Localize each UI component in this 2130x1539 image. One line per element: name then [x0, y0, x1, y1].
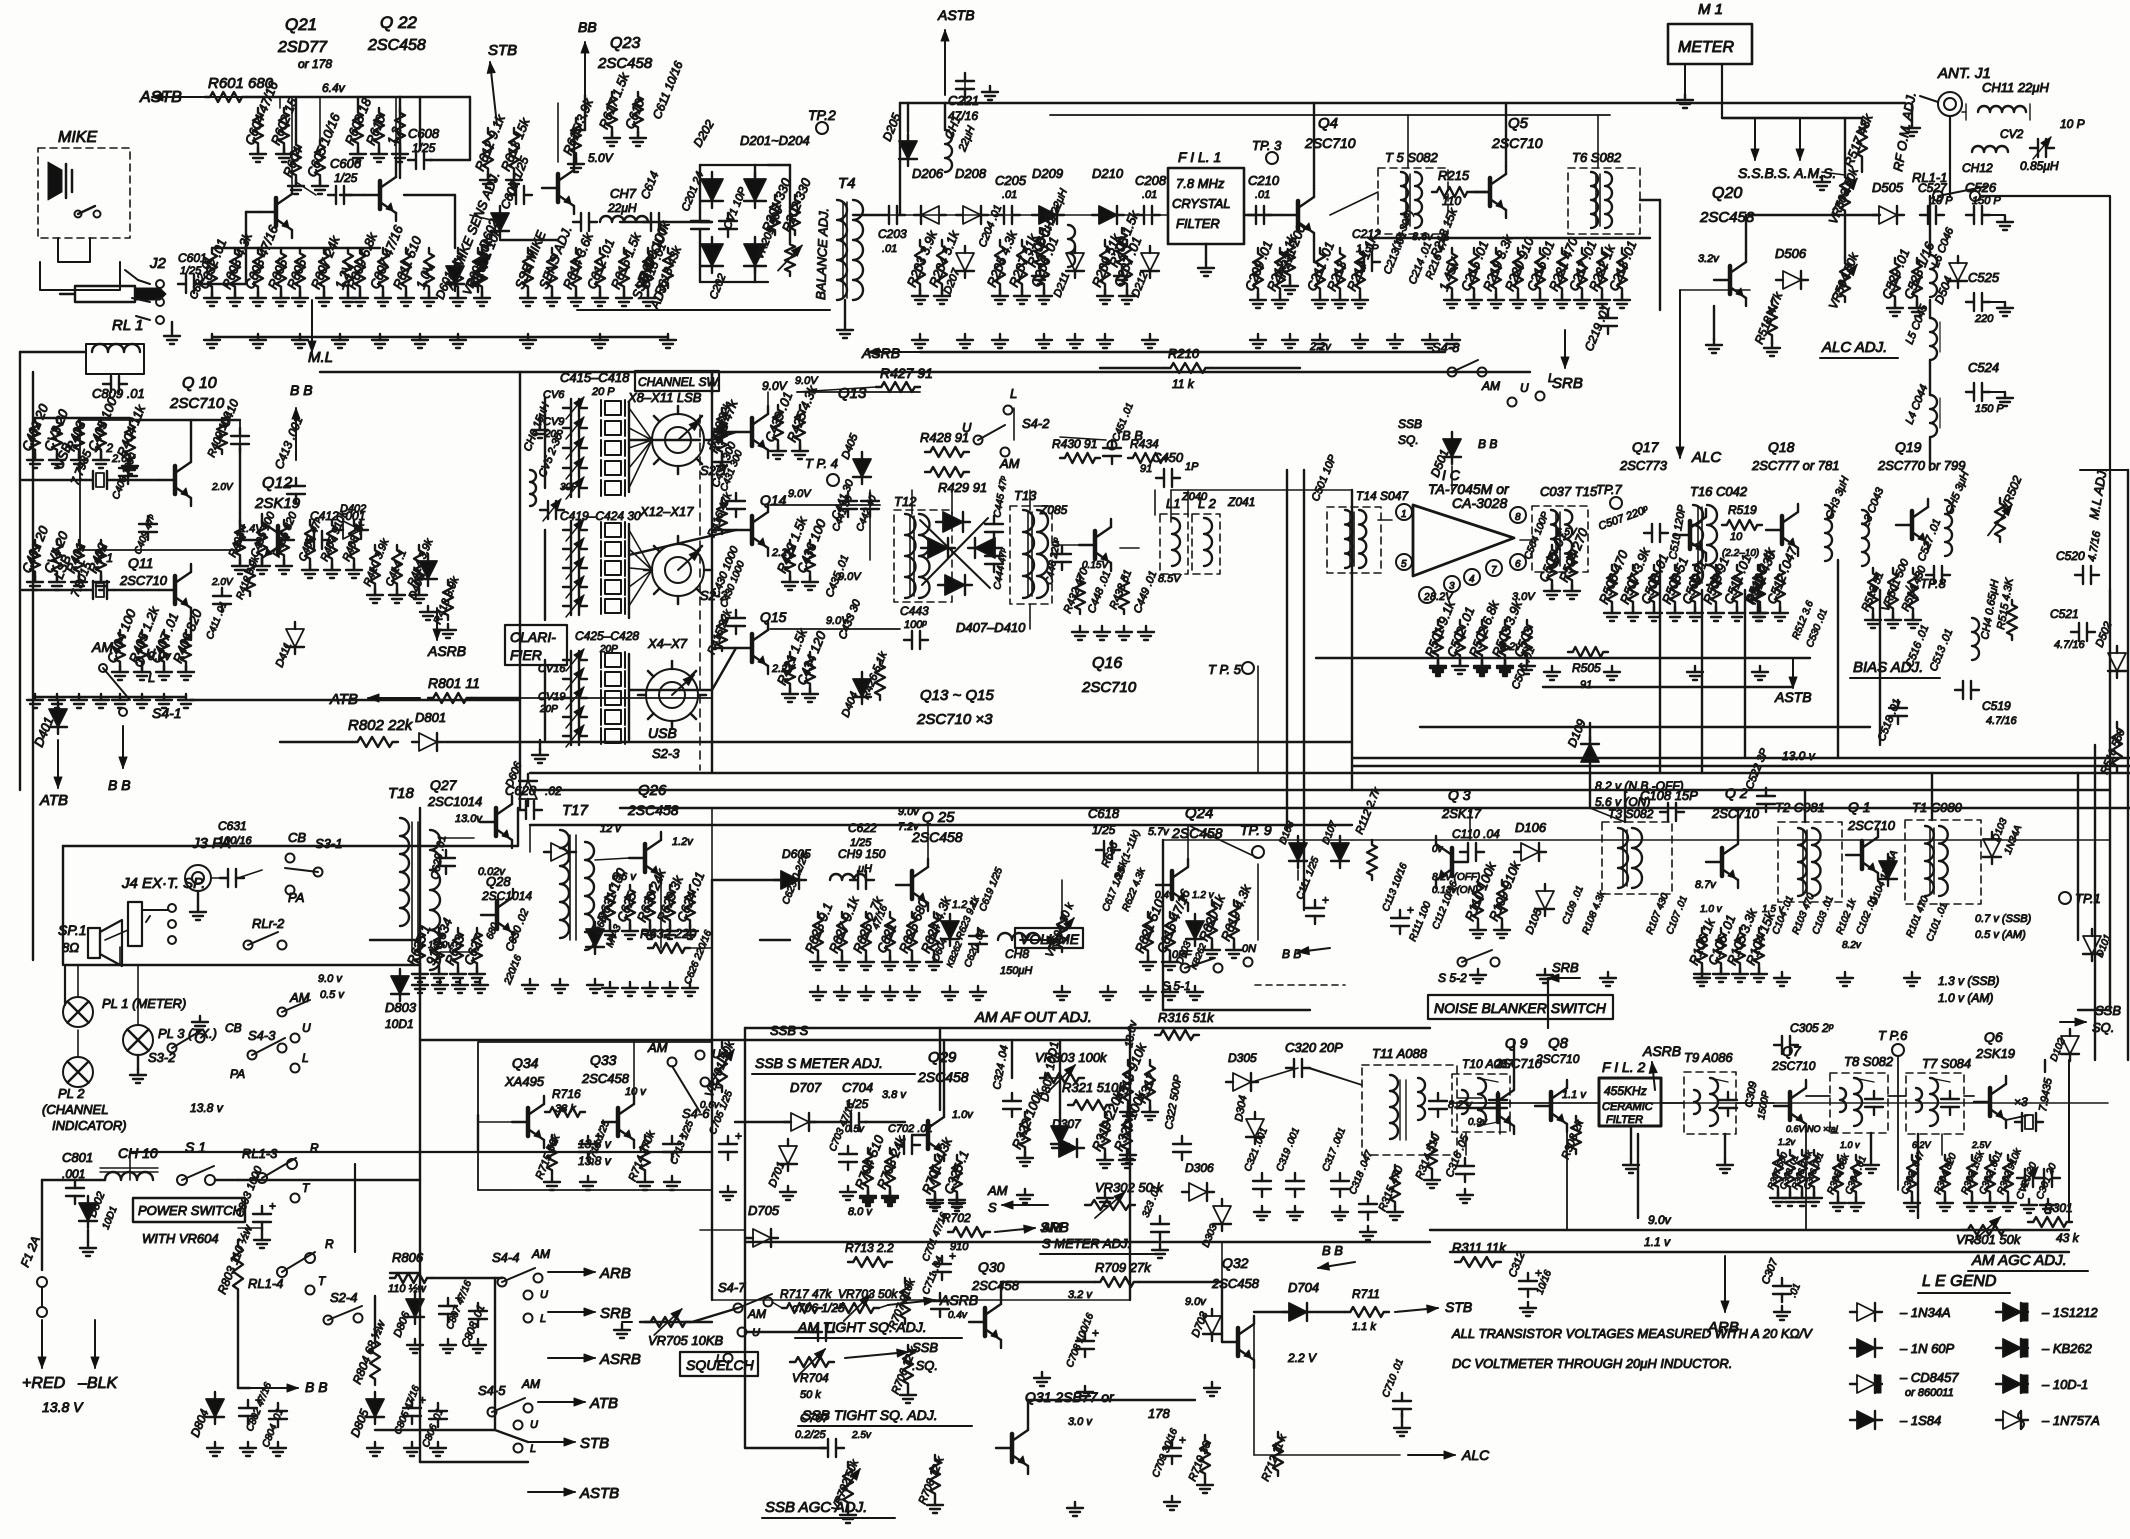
resistors C218	[1617, 248, 1627, 294]
diode D502	[2108, 653, 2126, 671]
wire x2 base	[114, 479, 159, 481]
svg-text:B B: B B	[108, 777, 131, 793]
speaker SP1	[88, 928, 100, 958]
wire BB arrow p	[1318, 1262, 1355, 1268]
wire rail drop e	[469, 97, 471, 160]
capacitor C110	[1467, 843, 1469, 861]
capacitor C316	[1456, 1165, 1474, 1167]
diode D204	[744, 179, 766, 201]
transformer T2 box	[1778, 822, 1842, 902]
diode D209	[1039, 206, 1057, 224]
wire mid bus3	[620, 807, 2130, 809]
diode D210	[1099, 206, 1117, 224]
rotary switch S2-1	[652, 414, 704, 466]
wire x1 base	[114, 589, 159, 591]
resistor bank VR601	[453, 248, 463, 292]
resistor R715	[547, 1135, 557, 1175]
capacitor C444	[985, 555, 1003, 557]
diode D103	[1983, 839, 2001, 857]
resistors C211 R213 R214	[1315, 248, 1325, 294]
inductor L1	[1172, 518, 1180, 566]
diode D604b	[941, 921, 959, 939]
jack J3	[185, 865, 211, 891]
wire c605 node	[296, 182, 316, 195]
wire agc stb	[1221, 1242, 1223, 1282]
ground S2-3	[539, 749, 541, 755]
transformer T16	[1693, 505, 1703, 585]
capacitor C443	[911, 631, 913, 649]
svg-text:D505: D505	[1872, 180, 1904, 195]
wire t2 up	[1804, 790, 1806, 822]
svg-text:Q13 ~ Q15: Q13 ~ Q15	[920, 687, 994, 704]
wire q10 coll2	[130, 419, 240, 421]
svg-text:C704: C704	[842, 1080, 873, 1095]
svg-text:T12: T12	[894, 494, 917, 509]
pot VR704	[790, 1357, 834, 1367]
switch S4-3	[248, 1051, 257, 1060]
svg-text:3.2v: 3.2v	[1698, 253, 1720, 265]
wire q5 out	[1505, 103, 1507, 166]
resistors R205 R207 C206	[995, 240, 1005, 290]
resistor R432	[1075, 576, 1085, 614]
svg-text:2SC710: 2SC710	[1304, 135, 1356, 151]
switch S4-4	[498, 1278, 507, 1287]
wire t17 q26	[595, 858, 629, 860]
wire q32 coll	[1253, 1316, 1255, 1368]
capacitor C629	[437, 857, 455, 859]
wire bottom link	[712, 1299, 1130, 1301]
wire t11 out	[1457, 1097, 1482, 1099]
svg-text:BB: BB	[578, 19, 597, 35]
svg-text:FILTER: FILTER	[1606, 1114, 1643, 1126]
svg-text:CLARI-: CLARI-	[510, 629, 556, 645]
wire relay bus	[238, 1227, 262, 1229]
IC pin 4	[1464, 569, 1480, 585]
svg-text:FILTER: FILTER	[1176, 216, 1220, 231]
wire if chain7	[1964, 1095, 1974, 1097]
wire rl out	[1980, 196, 2110, 590]
wire v drop d605	[529, 825, 531, 852]
wire rail drop c	[399, 97, 401, 178]
capacitor C613	[580, 213, 582, 231]
testpoint TP.5	[1242, 662, 1254, 674]
transistor Q4	[1296, 201, 1301, 229]
transistor Q1	[1860, 841, 1865, 869]
IC pin 5	[1396, 554, 1412, 570]
wire smeter bus	[745, 1241, 1430, 1243]
pot VR604	[1057, 912, 1067, 952]
capacitor C524	[1973, 383, 1975, 401]
svg-text:D402: D402	[340, 503, 366, 515]
svg-text:9.0V: 9.0V	[788, 488, 812, 500]
resistors R307 C308 R306 C306	[1773, 1150, 1783, 1192]
resistors R420 C439	[773, 405, 783, 445]
testpoint TP.4	[827, 474, 839, 486]
wire ring out	[1029, 605, 1031, 629]
svg-text:SRB: SRB	[1552, 960, 1579, 975]
switch S4-8	[1448, 368, 1457, 377]
wire RED arrow	[41, 1320, 43, 1368]
wire meter left	[1684, 64, 1686, 95]
wire meter bus	[1722, 117, 1862, 119]
transistor Q22	[378, 181, 383, 209]
wire center drop2	[939, 1040, 941, 1110]
wires S2-1	[629, 408, 652, 440]
wire q24 bus	[1188, 825, 1258, 858]
svg-text:ATB: ATB	[329, 691, 358, 708]
diode D411	[286, 629, 304, 647]
jack J4	[128, 902, 142, 946]
svg-text:C606: C606	[330, 156, 362, 171]
wire t6 out	[1640, 199, 1660, 201]
svg-text:L: L	[1010, 386, 1017, 401]
svg-text:C208: C208	[1135, 173, 1167, 188]
svg-text:C221: C221	[948, 93, 979, 108]
transistor Q11	[173, 576, 178, 604]
svg-text:3.0V: 3.0V	[1512, 591, 1536, 603]
svg-text:–BLK: –BLK	[77, 1375, 118, 1392]
svg-text:2SK17: 2SK17	[1441, 806, 1482, 821]
svg-text:Q15: Q15	[760, 609, 787, 625]
svg-text:2SC773: 2SC773	[1619, 458, 1668, 473]
svg-text:XA495: XA495	[504, 1074, 545, 1089]
svg-text:1/25: 1/25	[850, 837, 872, 849]
diode D705	[753, 1229, 771, 1247]
svg-text:C527: C527	[1918, 181, 1948, 195]
wire x4 to q15	[629, 689, 712, 691]
circle U k	[291, 1034, 300, 1043]
capacitor C609	[515, 186, 517, 204]
svg-text:.01: .01	[1002, 189, 1017, 201]
coil CH6	[530, 470, 536, 506]
capacitor C704	[850, 1113, 852, 1131]
svg-text:S2-4: S2-4	[330, 1290, 357, 1305]
transformer T6	[1591, 172, 1598, 228]
dashed gang line S2	[699, 415, 701, 770]
osc caps C402 CV3 R403 C405	[30, 418, 40, 454]
svg-text:ALL TRANSISTOR VOLTAGES MEA: ALL TRANSISTOR VOLTAGES MEASURED WITH A …	[1451, 1326, 1813, 1341]
pot VR503	[1840, 172, 1850, 216]
wire ant down	[1949, 150, 1951, 163]
resistor R301	[2028, 1217, 2072, 1227]
diode D107	[1331, 843, 1349, 861]
svg-text:SSB S: SSB S	[770, 1023, 809, 1038]
resistor R801	[428, 693, 472, 703]
resistors R403 C405 R406	[235, 520, 245, 560]
svg-text:T7 S084: T7 S084	[1922, 1056, 1971, 1071]
crystal X2	[92, 471, 94, 489]
ground C525	[2004, 302, 2006, 308]
svg-text:2SC710: 2SC710	[1081, 679, 1137, 696]
capacitor C705	[719, 1143, 737, 1145]
diode D405	[853, 459, 871, 477]
diode D801	[419, 733, 437, 751]
svg-text:R801 11: R801 11	[428, 675, 480, 691]
svg-text:+: +	[735, 1129, 742, 1143]
svg-text:AM: AM	[1041, 1220, 1062, 1235]
resistors C215 R219	[1447, 248, 1457, 294]
transistor Q13	[750, 418, 755, 446]
resistors R404	[125, 420, 135, 460]
capacitor C413	[287, 485, 305, 487]
capacitor C202	[719, 220, 737, 222]
wire c631 out	[238, 870, 262, 878]
svg-text:7: 7	[1491, 565, 1497, 576]
wire q25 bus	[898, 824, 928, 826]
wire osc rail	[35, 696, 186, 698]
wire t4 pri	[789, 165, 791, 240]
svg-text:U: U	[540, 1289, 548, 1301]
wire if drops a	[1637, 1134, 1639, 1218]
svg-text:C450: C450	[1152, 450, 1184, 465]
svg-text:C212: C212	[1352, 227, 1381, 241]
wire t12 top	[911, 490, 913, 514]
ground FIL2	[1630, 1159, 1632, 1165]
svg-text:R716: R716	[552, 1087, 581, 1101]
wire ch1 up	[944, 103, 946, 130]
wire bottom v1	[1129, 1240, 1131, 1300]
svg-text:L: L	[148, 670, 155, 685]
capacitor C203	[888, 206, 890, 224]
diode D504	[1949, 263, 1967, 281]
svg-text:11 k: 11 k	[1172, 377, 1195, 391]
inductor L3	[1862, 510, 1869, 566]
resistor R428	[925, 447, 969, 457]
legend diode 1N34A	[1857, 1303, 1875, 1321]
transformer T14 box	[1327, 507, 1381, 573]
pot VR504	[1840, 258, 1850, 302]
resistor R708	[930, 1455, 940, 1499]
svg-text:2.5V: 2.5V	[1971, 1140, 1992, 1150]
ground T8	[1870, 1159, 1872, 1165]
capacitor C519	[1962, 681, 1964, 699]
inductor L5	[1930, 318, 1937, 360]
transistor Q19	[1910, 511, 1915, 539]
diode D701	[779, 1146, 797, 1164]
svg-text:U: U	[530, 1419, 538, 1431]
capacitor C805	[403, 1407, 421, 1409]
capacitor C701	[933, 1263, 951, 1265]
wire agc rail	[745, 1331, 822, 1333]
svg-text:1.3 v (SSB): 1.3 v (SSB)	[1938, 974, 1999, 988]
svg-text:33 k: 33 k	[555, 1103, 576, 1115]
legend diode CD8457	[1857, 1375, 1875, 1393]
ground R518	[1771, 342, 1773, 348]
circle T n1	[291, 1194, 300, 1203]
capacitor C201	[691, 220, 709, 222]
svg-text:Q32: Q32	[1222, 1255, 1249, 1271]
svg-text:L: L	[302, 1051, 309, 1065]
wire bus 687	[1543, 686, 1793, 688]
svg-text:VR705 10KB: VR705 10KB	[648, 1333, 723, 1348]
svg-text:2SC458: 2SC458	[597, 55, 653, 72]
resistor R717	[782, 1303, 822, 1313]
svg-text:.02: .02	[545, 784, 562, 798]
svg-text:T2 C081: T2 C081	[1775, 800, 1825, 815]
wire center drop	[1129, 1028, 1131, 1240]
capacitor C410	[231, 435, 249, 437]
box NOISE BLANKER	[1428, 995, 1613, 1019]
capacitor C601	[185, 275, 187, 293]
resistor R806	[390, 1273, 432, 1283]
wire c801 net	[42, 1179, 100, 1181]
ground T9	[1724, 1159, 1726, 1165]
wire main 13v	[238, 1179, 420, 1181]
wire lamp drop1	[77, 965, 79, 997]
capacitor C450	[1163, 469, 1165, 487]
box FIL.2	[1599, 1078, 1661, 1126]
relay RL1 coil	[92, 344, 140, 352]
svg-text:1.2 V: 1.2 V	[952, 899, 979, 911]
wire q29 link2	[865, 1121, 905, 1123]
wire L string3	[1929, 360, 1931, 395]
svg-text:110: 110	[1442, 194, 1461, 208]
lamp PL2	[63, 1057, 93, 1087]
capacitor C808	[469, 1310, 487, 1312]
svg-text:– 1S84: – 1S84	[1899, 1413, 1941, 1428]
svg-text:5: 5	[1401, 559, 1407, 570]
svg-text:S 1: S 1	[185, 1139, 206, 1155]
resistors R305 C304	[1833, 1155, 1843, 1197]
inductor CH10	[105, 1172, 153, 1180]
wire AM S arrow	[1002, 1204, 1048, 1206]
resistors R410 C414 R414	[370, 545, 380, 589]
svg-text:2SC710: 2SC710	[1491, 135, 1543, 151]
resistors R513 VR501	[1868, 568, 1878, 614]
svg-text:NOISE BLANKER SWITCH: NOISE BLANKER SWITCH	[1434, 1000, 1607, 1016]
svg-text:0FF: 0FF	[1172, 949, 1193, 961]
svg-text:30P: 30P	[560, 482, 578, 493]
wire q2 up	[1737, 808, 1739, 836]
testpoint TP.6	[1892, 1044, 1904, 1056]
svg-text:C618: C618	[1088, 806, 1120, 821]
svg-text:AM: AM	[521, 1377, 540, 1391]
svg-text:L: L	[540, 1313, 546, 1325]
wire v drop q18	[1701, 590, 1703, 773]
svg-text:13.0v: 13.0v	[455, 813, 483, 825]
switch RLr-2	[244, 941, 253, 950]
svg-text:4.7/16: 4.7/16	[1986, 715, 2017, 727]
transformer T17	[560, 830, 569, 938]
transistor Q7	[1788, 1092, 1793, 1120]
testpoint TP.3	[1266, 152, 1278, 164]
resistors R220 C216	[1513, 248, 1523, 294]
wire bus drop t6	[1597, 115, 1599, 168]
wire v drop t16	[1744, 590, 1746, 758]
transistor Q30	[983, 1308, 988, 1336]
svg-text:T P. 5: T P. 5	[1208, 662, 1242, 677]
wire d807	[1059, 1040, 1061, 1120]
transistor Q8	[1549, 1092, 1554, 1120]
capacitor C521	[2078, 623, 2080, 641]
wire if chain3	[1661, 1102, 1684, 1104]
wire q6 to x3	[2006, 1115, 2029, 1120]
wire q22 base	[340, 194, 364, 196]
svg-text:1.0 v: 1.0 v	[1840, 1140, 1860, 1150]
svg-text:TP. 9: TP. 9	[1240, 822, 1272, 838]
svg-text:50 k: 50 k	[800, 1389, 821, 1401]
wire r709 out	[1139, 1281, 1222, 1283]
svg-text:4: 4	[1469, 574, 1475, 585]
box Q10 outline	[80, 420, 240, 550]
crystal bank X12-X17	[605, 523, 621, 537]
resistor R515	[2007, 600, 2017, 640]
svg-text:MIKE: MIKE	[58, 129, 97, 146]
wire alc rail	[1750, 214, 1880, 216]
wire ssb sq	[2060, 1021, 2086, 1023]
svg-text:T16 C042: T16 C042	[1690, 484, 1748, 499]
box POWER SWITCH	[133, 1198, 245, 1222]
svg-text:2.0V: 2.0V	[211, 577, 234, 588]
wire if chain	[1604, 1102, 2108, 1104]
resistors R201 R202 VR201	[770, 195, 780, 235]
resistor R707	[900, 1278, 910, 1324]
diode D603	[1186, 921, 1204, 939]
diode D803	[391, 976, 409, 994]
resistor R518	[1767, 300, 1777, 340]
svg-text:2SK19: 2SK19	[254, 495, 301, 512]
svg-text:2SC710: 2SC710	[169, 395, 225, 412]
wire 1.1v rail q	[1450, 1251, 2069, 1253]
transformer T6 box	[1568, 168, 1640, 234]
svg-text:3.0 v: 3.0 v	[1068, 1416, 1093, 1428]
wire z041 wire	[1187, 490, 1189, 515]
svg-text:BALANCE ADJ.: BALANCE ADJ.	[813, 208, 831, 300]
wire ATB801 arrow	[368, 697, 420, 699]
svg-text:S2-3: S2-3	[652, 746, 680, 761]
wire t18 q27	[440, 837, 474, 839]
wire spk1	[105, 930, 128, 940]
svg-text:D801: D801	[415, 710, 446, 725]
underline SSB AGC	[762, 1517, 895, 1519]
svg-text:c706 1/25: c706 1/25	[792, 1301, 845, 1315]
wire audio border	[63, 845, 518, 847]
wire t4 link	[768, 164, 790, 166]
wire vert right1	[2109, 590, 2111, 773]
svg-text:AM: AM	[747, 1307, 766, 1321]
diode D101	[2083, 936, 2101, 954]
svg-text:T14 S047: T14 S047	[1356, 489, 1409, 503]
svg-text:SQ.: SQ.	[1398, 433, 1419, 447]
svg-text:CH12: CH12	[1962, 161, 1993, 175]
wire q23 net	[500, 239, 558, 241]
wire q4 em	[1313, 241, 1315, 262]
resistor R210	[1165, 363, 1211, 373]
svg-text:T4: T4	[838, 175, 856, 192]
transformer T5	[1401, 172, 1408, 228]
svg-text:Q29: Q29	[928, 1049, 957, 1066]
svg-text:R: R	[325, 1237, 334, 1251]
wire j3 link	[211, 877, 226, 879]
wire d109 v	[1589, 723, 1591, 741]
wire SRB arrow o	[995, 1228, 1035, 1232]
wire SRB arrow	[1564, 330, 1566, 368]
transformer T7	[1916, 1088, 1922, 1112]
wire s42 line	[1013, 408, 1015, 440]
transformer T8 box	[1830, 1073, 1888, 1133]
wire q16 bus	[1171, 489, 1352, 491]
wire q20 coll	[1745, 215, 1747, 254]
transformer T3	[1618, 828, 1628, 888]
ground C312	[1527, 1302, 1529, 1308]
svg-text:T11 A088: T11 A088	[1372, 1046, 1428, 1061]
wire q31 bus	[1028, 1399, 1195, 1401]
resistor R416	[717, 498, 727, 534]
wire ATB arrow	[538, 1401, 585, 1403]
svg-text:2SK19: 2SK19	[1975, 1046, 2015, 1061]
transformer T10 box	[1452, 1074, 1510, 1132]
wire under bus	[320, 371, 1530, 373]
